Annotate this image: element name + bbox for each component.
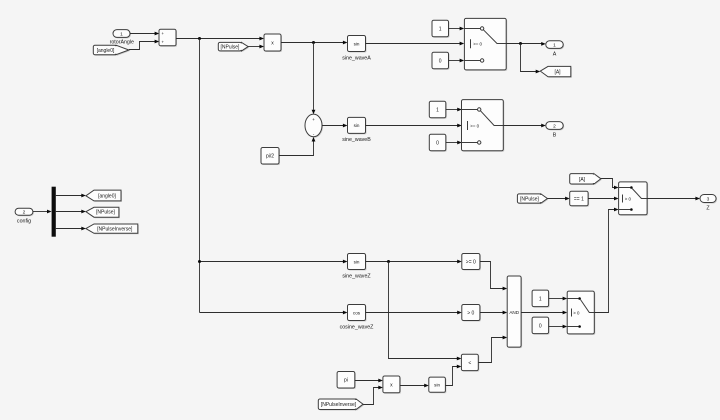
inport 1 rotorAngle [110, 30, 134, 46]
svg-text:2: 2 [23, 210, 26, 216]
goto tag [NPulseInverse] [86, 224, 139, 234]
cos block cosine_waveZ [340, 305, 375, 331]
relational block < [461, 354, 479, 371]
svg-text:[NPulse]: [NPulse] [96, 210, 116, 216]
svg-text:sin: sin [354, 41, 360, 46]
switch block SwitchA [464, 18, 507, 71]
wire productB out to sin bottom [400, 384, 429, 388]
svg-text:[A]: [A] [554, 70, 561, 76]
svg-text:1: 1 [539, 296, 542, 302]
wire junction down to round sum top [312, 43, 316, 115]
goto tag [A] row A [540, 66, 572, 77]
svg-text:B: B [553, 132, 557, 138]
svg-text:[A]: [A] [579, 177, 586, 183]
wire const1Z to switchZ2 in1 [549, 297, 568, 301]
demux bar [52, 187, 56, 237]
svg-text:>= 0: >= 0 [466, 259, 476, 265]
wire from-A to switchZ1 in1 [601, 179, 619, 190]
wire sum out to product in1 [176, 37, 264, 41]
wire junction down to goto [A] [521, 44, 541, 74]
switch block SwitchZ2 (lower) [567, 291, 595, 335]
round sum block (angle - pi/2) [305, 114, 323, 138]
compare block == 1 [570, 191, 589, 206]
wire switchZ1 out to outport Z [647, 197, 700, 201]
svg-text:3: 3 [707, 197, 710, 203]
wire ==1 out to switchZ1 in2 [588, 197, 619, 201]
wire >0 out to AND in2 [480, 311, 507, 315]
wire trunk bottom to cosZ [200, 311, 348, 315]
svg-text:config: config [17, 218, 31, 224]
svg-text:> 0: > 0 [625, 196, 632, 201]
constant 1 (row A) [432, 20, 450, 38]
sin block sine_waveB [342, 117, 371, 142]
svg-text:[angle0]: [angle0] [97, 48, 115, 54]
svg-text:<: < [468, 361, 471, 367]
wire from-NPulse to == 1 [547, 197, 569, 201]
svg-text:+: + [312, 118, 315, 123]
junction node at (200,261) [198, 260, 201, 263]
svg-text:pi/2: pi/2 [266, 154, 274, 160]
junction node at (313,43) [312, 41, 315, 44]
wire round sum out to sinB [322, 124, 348, 128]
wire sin bottom up to relational < in2 [445, 365, 461, 386]
junction node at (388.6,261) [387, 260, 390, 263]
wire const0B to switchB in3 [446, 141, 462, 145]
svg-text:sine_waveA: sine_waveA [342, 55, 371, 61]
constant 0 (row A) [432, 52, 450, 69]
svg-text:sin: sin [434, 383, 440, 388]
wire sinA out to switchA in2 [366, 42, 465, 46]
svg-text:pi: pi [344, 378, 348, 384]
outport 1 A [546, 41, 564, 58]
wire trunk vertical x=200 down to Z rows [199, 39, 201, 313]
goto tag [NPulse] [86, 207, 120, 218]
wire const1B to switchB in1 [446, 108, 462, 112]
wire from-NPulseInverse to productB in2 [363, 386, 383, 405]
svg-text:[NPulseInverse]: [NPulseInverse] [321, 402, 357, 408]
outport 2 B [546, 122, 564, 139]
sum block Add [159, 29, 177, 47]
constant pi/2 [261, 148, 280, 166]
wire switchZ2 out up to switchZ1 in3 [594, 208, 618, 313]
svg-text:> 0: > 0 [573, 310, 580, 315]
outport 3 Z [700, 195, 717, 212]
sin block bottom [429, 377, 447, 393]
svg-text:0: 0 [539, 323, 542, 329]
constant pi [337, 372, 356, 390]
from tag [angle0] top [93, 45, 130, 56]
sin block sine_waveA [342, 36, 371, 62]
from tag [NPulse] top [218, 42, 249, 52]
svg-text:sin: sin [354, 123, 360, 128]
logical operator AND [507, 276, 522, 348]
wire trunk branch to sinZ [200, 260, 348, 264]
wire const0A to switchA in3 [449, 59, 465, 63]
wire pi/2 to round sum bottom [279, 137, 315, 156]
svg-text:cosine_waveZ: cosine_waveZ [340, 325, 375, 331]
svg-text:0: 0 [439, 58, 442, 64]
wire demux to goto [NPulseInverse] [56, 227, 86, 231]
constant 0 (row B) [429, 134, 447, 152]
svg-text:1: 1 [436, 107, 439, 113]
svg-text:0: 0 [436, 140, 439, 146]
junction node at (520,43.8) [519, 42, 522, 45]
wire const0Z to switchZ2 in3 [549, 325, 568, 329]
svg-text:AND: AND [509, 310, 519, 315]
wire const1A to switchA in1 [449, 27, 465, 31]
sin block sine_waveZ [342, 254, 371, 280]
wire demux to goto [NPulse] [56, 210, 86, 214]
svg-text:> 0: > 0 [467, 310, 474, 316]
svg-text:== 1: == 1 [574, 196, 584, 202]
svg-text:[NPulse]: [NPulse] [520, 196, 540, 202]
svg-text:[NPulse]: [NPulse] [221, 44, 241, 50]
switch block SwitchZ1 (upper) [619, 182, 649, 216]
wire junction down to relational < in1 [389, 262, 462, 361]
wire cosZ out to compare > 0 [366, 311, 462, 315]
switch block SwitchB [462, 100, 505, 152]
wire AND out to switchZ2 in2 [521, 311, 567, 315]
svg-text:sin: sin [354, 259, 360, 264]
from tag [NPulseInverse] bottom [318, 399, 364, 411]
svg-text:rotorAngle: rotorAngle [110, 40, 134, 46]
from tag [NPulse] right [517, 194, 548, 204]
product block x (bottom) [383, 376, 401, 394]
wire demux to goto [angle0] [56, 194, 86, 198]
wire < out to AND in3 [478, 336, 507, 363]
wire >=0 out to AND in1 [480, 262, 507, 291]
svg-text:2: 2 [553, 124, 556, 130]
product block x (top) [264, 34, 282, 52]
svg-text:>= 0: >= 0 [473, 42, 482, 47]
wire inport2 to demux [33, 210, 52, 214]
svg-text:[angle0]: [angle0] [98, 194, 116, 200]
wire pi to productB in1 [355, 379, 383, 383]
svg-text:sine_waveZ: sine_waveZ [342, 274, 371, 280]
wire from-angle0 to sum in2 [129, 40, 159, 50]
wire sinZ out to compare >= 0 [366, 260, 462, 264]
constant 1 (row B) [429, 101, 447, 119]
wire inport1 to sum in1 [130, 32, 159, 36]
svg-text:1: 1 [439, 26, 442, 32]
compare block > 0 [462, 305, 481, 322]
junction node at (200,38.5) [198, 37, 201, 40]
constant 1 (row Z) [532, 290, 550, 308]
svg-text:1: 1 [553, 43, 556, 49]
wire product out to sinA [281, 41, 348, 45]
svg-text:sine_waveB: sine_waveB [342, 137, 371, 143]
svg-text:1: 1 [120, 31, 123, 37]
from tag [A] right [570, 174, 602, 185]
wire sinB out to switchB in2 [366, 124, 462, 128]
inport 2 config [15, 208, 34, 224]
svg-text:A: A [553, 52, 557, 58]
wire switchA out to outport A [506, 42, 546, 46]
constant 0 (row Z) [532, 317, 550, 335]
svg-text:[NPulseInverse]: [NPulseInverse] [97, 227, 133, 233]
wire from-NPulse to product in2 [248, 45, 264, 49]
svg-text:>= 0: >= 0 [470, 123, 479, 128]
svg-text:cos: cos [353, 310, 361, 315]
compare block >= 0 [462, 254, 481, 271]
goto tag [angle0] [86, 190, 122, 202]
wire switchB out to outport B [503, 124, 546, 128]
